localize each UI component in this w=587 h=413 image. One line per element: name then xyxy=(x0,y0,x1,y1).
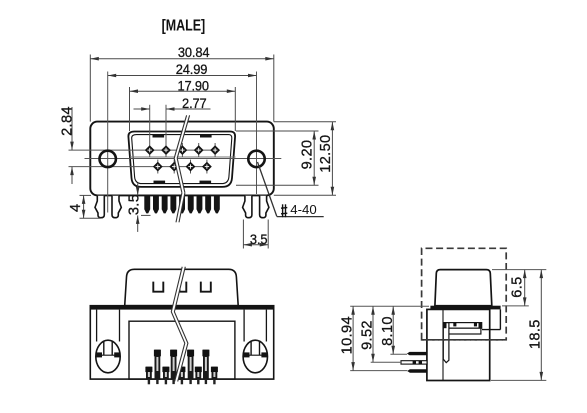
shell notch bottom-left xyxy=(154,181,166,184)
dim 9.52 xyxy=(372,306,374,362)
dim 24.99 xyxy=(108,75,257,77)
row1 line xyxy=(69,149,220,151)
sv pin A xyxy=(407,352,427,355)
svg-text:6.5: 6.5 xyxy=(510,276,526,297)
dim 18.5 xyxy=(540,270,542,381)
label #4-40 xyxy=(281,204,287,217)
shell notch top-left xyxy=(153,135,165,138)
bv lock channel left xyxy=(96,310,98,342)
pin white crosses xyxy=(148,148,218,169)
pin verticals row2 xyxy=(157,160,159,174)
dim 4 xyxy=(80,195,101,218)
dim 10.94 xyxy=(352,306,354,370)
right peg 1 xyxy=(243,196,252,218)
dim 2.84 xyxy=(71,107,73,184)
bv flange band xyxy=(90,306,275,310)
dim 3.5 bottom right xyxy=(243,220,268,249)
flange outline xyxy=(90,122,273,196)
dim 17.90 xyxy=(130,87,236,131)
dim 2.77 xyxy=(134,108,211,110)
row2 line xyxy=(69,166,212,168)
svg-text:24.99: 24.99 xyxy=(176,62,208,78)
sv flange band xyxy=(430,306,500,310)
bv U notch 2 (at break) xyxy=(180,282,187,292)
bv short pins xyxy=(145,367,218,385)
left hole vertical centerline xyxy=(107,72,109,213)
bv U notch 3 xyxy=(201,282,211,292)
bv right oval xyxy=(243,340,267,373)
svg-text:10.94: 10.94 xyxy=(339,316,355,354)
D-shell outer xyxy=(128,132,235,187)
svg-text:4-40: 4-40 xyxy=(290,202,316,217)
svg-text:3.5: 3.5 xyxy=(250,231,267,247)
dim 8.10 xyxy=(392,306,394,354)
sv dashed mating outline xyxy=(422,248,507,339)
svg-text:9.52: 9.52 xyxy=(360,320,376,350)
dim 12.50 xyxy=(274,122,336,195)
sv internal vertical xyxy=(442,309,444,380)
sv terminal xyxy=(443,323,481,329)
svg-text:2.77: 2.77 xyxy=(182,96,206,112)
left peg 1 xyxy=(95,196,104,218)
sv pin B xyxy=(401,361,427,364)
svg-text:2.84: 2.84 xyxy=(60,106,76,136)
centerline horizontal through holes xyxy=(85,158,282,160)
break line bottom view xyxy=(171,267,188,382)
shell notch bottom-right xyxy=(200,181,212,184)
sv right ext lines xyxy=(491,270,546,381)
svg-text:17.90: 17.90 xyxy=(177,78,209,94)
left peg 2 xyxy=(112,196,121,218)
solder pins row (black) xyxy=(144,195,219,213)
bv left oval xyxy=(96,340,120,373)
bv inner rect xyxy=(129,321,235,379)
dim 3.5 left (pin length) xyxy=(138,183,151,232)
shell notch top-right xyxy=(200,135,212,138)
break line front view xyxy=(174,115,189,222)
sv body xyxy=(427,309,490,380)
svg-text:3.5: 3.5 xyxy=(126,194,142,215)
dim 9.20 xyxy=(236,131,319,185)
sv step xyxy=(482,329,500,331)
svg-text:4: 4 xyxy=(68,204,84,212)
dim 30.84 xyxy=(90,55,273,122)
bv U notch 1 xyxy=(153,282,163,292)
bv outer rect xyxy=(90,306,273,379)
svg-text:18.5: 18.5 xyxy=(527,319,543,349)
svg-text:12.50: 12.50 xyxy=(318,134,334,172)
secondary shell line xyxy=(130,156,236,158)
svg-text:8.10: 8.10 xyxy=(380,316,396,346)
right hole vertical centerline xyxy=(256,72,258,195)
bv shell xyxy=(125,269,239,305)
bv tall pins xyxy=(154,350,210,384)
sv top ext line xyxy=(350,305,429,307)
pin verticals row1 xyxy=(149,105,151,157)
mounting hole right xyxy=(248,151,264,167)
sv shell xyxy=(435,270,492,306)
pins row2 (diamonds) xyxy=(153,162,212,172)
svg-text:9.20: 9.20 xyxy=(300,140,316,170)
sv pin C xyxy=(407,369,427,372)
svg-text:[MALE]: [MALE] xyxy=(162,17,206,35)
dim 6.5 xyxy=(524,270,526,306)
title [MALE] xyxy=(162,17,206,35)
pins row1 (diamonds) xyxy=(145,145,220,155)
mounting hole left xyxy=(100,151,116,167)
right peg 2 xyxy=(260,196,269,218)
svg-text:30.84: 30.84 xyxy=(178,45,210,61)
D-shell inner xyxy=(132,135,232,184)
bv lock channel right xyxy=(243,310,245,342)
leader #4-40 xyxy=(258,162,277,216)
